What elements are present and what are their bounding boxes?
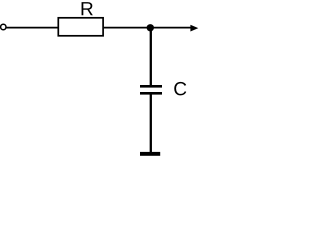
output arrowhead — [190, 25, 198, 32]
ground bar — [140, 152, 160, 156]
label R — [82, 2, 93, 15]
wire: node to output arrow — [150, 27, 191, 29]
input terminal (open circle) — [1, 24, 6, 29]
capacitor C bottom plate — [140, 92, 162, 95]
node junction dot — [147, 24, 154, 31]
resistor R (body) — [58, 18, 103, 36]
wire: resistor to node — [104, 27, 150, 29]
wire: terminal to resistor — [6, 27, 58, 29]
label C — [174, 82, 186, 95]
wire: node down to capacitor — [150, 28, 152, 86]
wire: capacitor to ground — [150, 95, 152, 153]
capacitor C top plate — [140, 85, 162, 88]
